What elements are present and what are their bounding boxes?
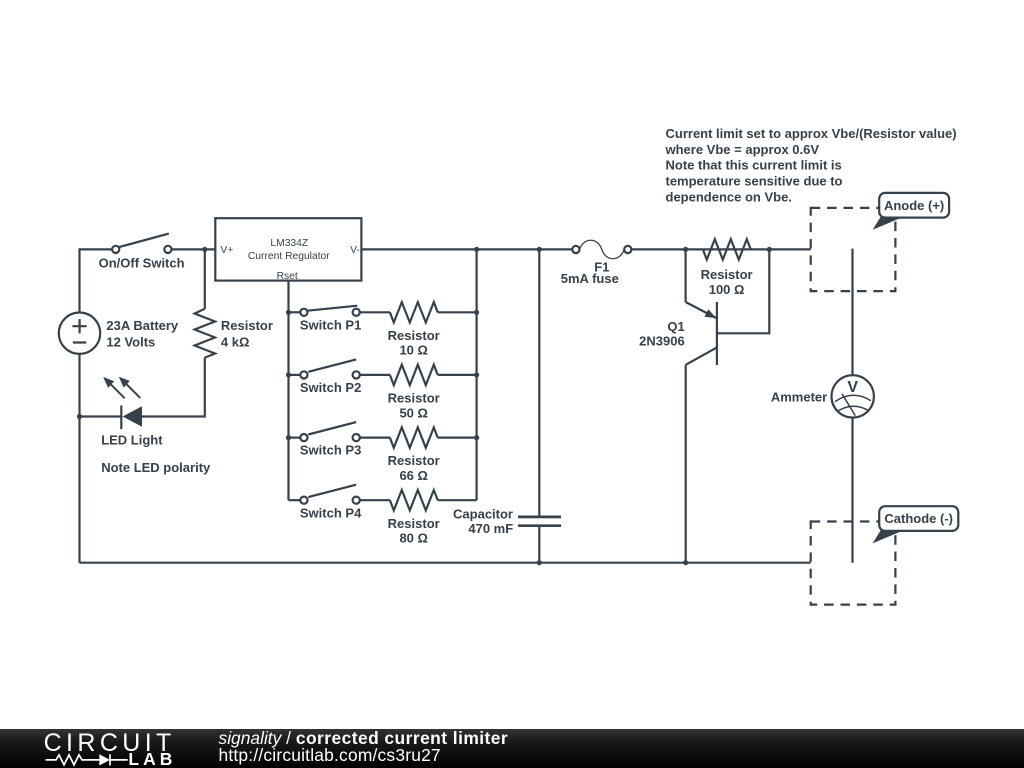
svg-text:Switch P3: Switch P3 [300,443,361,458]
wire: on/off switch to LM334Z V+ pin [171,248,215,250]
callout: Anode (+) [873,193,950,230]
wire: LED to resistor R2 bottom [142,358,205,417]
wire: switch P1 to resistor [360,311,390,313]
svg-text:Current limit set to approx Vb: Current limit set to approx Vbe/(Resisto… [666,126,957,141]
terminal box: anode [811,208,896,291]
svg-text:Note that this current limit i: Note that this current limit is [666,158,842,173]
wire: right resistor bus [476,249,478,500]
svg-text:Rset: Rset [277,271,298,282]
wire: LED row left [80,415,122,417]
svg-text:Resistor: Resistor [388,453,440,468]
wire: switch P2 row left [289,374,301,376]
svg-text:Q1: Q1 [667,319,684,334]
wire: fuse to anode terminal box [631,248,810,250]
svg-text:100 Ω: 100 Ω [709,282,745,297]
wire: capacitor bottom branch [538,526,540,563]
resistor RP4 80 Ω [388,490,440,546]
resistor RP1 10 Ω [388,302,440,358]
svg-text:Switch P4: Switch P4 [300,505,362,520]
wire: resistor row 2 right lead [438,374,477,376]
wire: left rail battery to bottom [78,354,80,563]
wire: resistor R2 top lead [204,249,206,308]
svg-text:dependence on Vbe.: dependence on Vbe. [666,189,792,204]
switch SWP3 [300,422,361,458]
resistor R2 4 kOhm [195,309,273,358]
svg-text:2N3906: 2N3906 [639,333,685,348]
fuse F1 5mA [561,240,632,286]
wire: Q1 emitter lead [684,249,686,302]
svg-text:470 mF: 470 mF [468,521,513,536]
wire: switch P1 row left [289,311,301,313]
switch SWP2 [300,359,361,395]
svg-text:10 Ω: 10 Ω [399,343,428,358]
resistor RP2 50 Ω [388,365,440,421]
svg-text:On/Off Switch: On/Off Switch [99,255,185,270]
callout: Cathode (-) [873,506,959,543]
wire: switch P4 row left [289,499,301,501]
wire: switch P3 to resistor [360,437,390,439]
IC U1 LM334Z current regulator [215,218,361,282]
svg-text:80 Ω: 80 Ω [399,531,428,546]
svg-text:50 Ω: 50 Ω [399,405,428,420]
junction node (204.8,249.4) [202,247,207,252]
wire: V- output to fuse [361,248,572,250]
svg-text:LAB: LAB [128,749,176,767]
wire: resistor row 3 right lead [438,437,477,439]
junction node (539.3,562.7) [537,560,542,565]
svg-text:Cathode (-): Cathode (-) [884,511,953,526]
svg-text:4 kΩ: 4 kΩ [221,335,250,350]
wire: bottom rail [80,562,811,564]
switch SWP4 [300,485,362,521]
junction node (476.6,312.3) [474,310,479,315]
svg-text:Resistor: Resistor [388,328,440,343]
switch SWP1 [300,306,361,333]
svg-text:Switch P2: Switch P2 [300,380,361,395]
wire: switch P2 to resistor [360,374,390,376]
svg-text:temperature sensitive due to: temperature sensitive due to [666,174,843,189]
junction node (685.6,249.4) [683,247,688,252]
capacitor C1 470 mF [453,507,561,537]
wire: resistor row 4 right lead [438,499,477,501]
junction node (79.5,416.5) [77,414,82,419]
transistor Q1 2N3906 [639,302,717,365]
ammeter M1 [771,375,874,417]
svg-text:66 Ω: 66 Ω [399,468,428,483]
svg-text:Resistor: Resistor [701,267,753,282]
terminal box: cathode [811,522,896,605]
note: current limit annotation [665,126,957,204]
svg-text:Resistor: Resistor [221,318,273,333]
svg-text:5mA fuse: 5mA fuse [561,271,619,286]
svg-text:V: V [847,379,858,396]
LED light arrows [103,377,140,399]
svg-text:V-: V- [350,245,360,256]
junction node (476.6,374.9) [474,372,479,377]
wire: ammeter bottom probe [851,417,853,562]
wire: Q1 base lead [717,249,769,333]
LED D1 [101,405,163,447]
junction node (476.6,437.6) [474,435,479,440]
junction node (288.5,312.3) [286,310,291,315]
resistor RP3 66 Ω [388,427,440,483]
svg-text:Anode (+): Anode (+) [884,198,944,213]
svg-text:Note LED polarity: Note LED polarity [101,460,211,475]
svg-text:Ammeter: Ammeter [771,389,827,404]
junction node (476.6,249.4) [474,247,479,252]
junction node (685.7,562.7) [683,560,688,565]
wire: Q1 collector lead [685,365,687,563]
svg-text:LED Light: LED Light [101,432,163,447]
battery V1 23A Battery 12 Volts [59,313,179,354]
resistor R1 100 Ohm [701,239,753,297]
CircuitLab logo [0,729,200,768]
svg-text:23A Battery: 23A Battery [106,318,179,333]
svg-text:Current Regulator: Current Regulator [248,251,330,262]
svg-text:where Vbe = approx 0.6V: where Vbe = approx 0.6V [665,142,820,157]
wire: Rset switch bus [287,281,289,501]
svg-text:Resistor: Resistor [388,391,440,406]
junction node (769.3,249.4) [767,247,772,252]
wire: battery top to on/off switch [80,249,113,312]
wire: switch P3 row left [289,437,301,439]
switch SW1 On/Off Switch [99,234,185,271]
svg-text:Resistor: Resistor [388,516,440,531]
junction node (288.5,437.6) [286,435,291,440]
logo resistor-diode doodle [46,755,128,766]
svg-text:12 Volts: 12 Volts [106,335,155,350]
wire: capacitor top branch [538,249,540,517]
svg-text:Switch P1: Switch P1 [300,317,361,332]
footer bar [0,729,1024,768]
wire: ammeter top probe [851,249,853,376]
junction node (539.3,249.4) [537,247,542,252]
svg-text:LM334Z: LM334Z [270,238,308,249]
wire: switch P4 to resistor [360,499,390,501]
svg-text:Capacitor: Capacitor [453,507,513,522]
svg-text:V+: V+ [220,245,233,256]
junction node (288.5,374.9) [286,372,291,377]
wire: resistor row 1 right lead [438,311,477,313]
